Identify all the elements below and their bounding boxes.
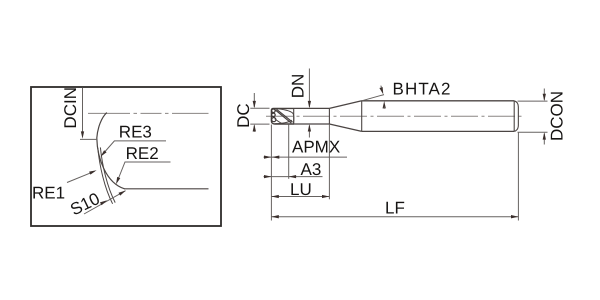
svg-text:RE2: RE2 xyxy=(126,144,159,163)
flute gash bump 2 xyxy=(272,113,276,117)
flute gash bump 1 xyxy=(272,109,276,113)
taper start vertical xyxy=(328,108,330,124)
flute gash bump 3 xyxy=(272,118,276,122)
BHTA2 taper extension line xyxy=(362,95,384,101)
shank bottom xyxy=(362,130,515,132)
shank end chamfer vertical xyxy=(513,101,515,132)
svg-text:DC: DC xyxy=(234,103,253,128)
DCIN extension tick xyxy=(80,138,97,140)
head end vertical xyxy=(293,108,295,124)
extension line shank end xyxy=(517,133,519,221)
extension line tool face xyxy=(270,125,272,221)
neck top line xyxy=(294,107,329,109)
svg-text:DCON: DCON xyxy=(548,91,567,141)
detail bottom profile line xyxy=(124,188,209,190)
LU arrow right xyxy=(322,195,329,198)
APMX dimension line xyxy=(264,156,348,158)
A3 arrow left xyxy=(264,175,271,178)
DCON arrow lower xyxy=(543,132,546,139)
RE2 leader xyxy=(117,162,171,182)
detail profile curve xyxy=(97,113,125,189)
S10 arrow a xyxy=(100,200,107,205)
detail tangent double line 1 xyxy=(98,148,113,204)
BHTA2 lower arrow xyxy=(383,101,386,108)
RE1 leader xyxy=(67,171,95,182)
RE3 leader xyxy=(102,141,166,155)
flute bottom arc xyxy=(275,120,292,123)
DCON extension top xyxy=(518,100,548,102)
A3 arrow right xyxy=(289,175,296,178)
APMX arrow left xyxy=(264,155,271,158)
flute lower short edge xyxy=(275,119,283,124)
LF arrow right xyxy=(511,215,518,218)
flute helix edge 1 xyxy=(275,110,292,124)
DCON dimension line lower xyxy=(543,134,545,145)
DC extension line bottom xyxy=(250,123,269,125)
BHTA2 upper arrow xyxy=(379,87,383,95)
svg-text:RE3: RE3 xyxy=(119,123,152,142)
S10 arrow b xyxy=(119,191,126,196)
A3 dimension line xyxy=(264,176,323,178)
DCON dimension line upper xyxy=(543,89,545,100)
DC arrow lower xyxy=(253,124,256,131)
svg-text:DN: DN xyxy=(289,74,308,99)
svg-text:APMX: APMX xyxy=(292,138,340,157)
svg-text:RE1: RE1 xyxy=(32,184,65,203)
neck bottom line xyxy=(294,123,329,125)
BHTA2 lower arrow tail xyxy=(383,107,385,109)
RE1 arrow xyxy=(89,170,97,174)
LU arrow left xyxy=(271,195,278,198)
DN arrow lower xyxy=(308,124,311,131)
S10 leader line xyxy=(84,191,126,214)
DCIN arrow xyxy=(81,131,84,138)
extension line flute end xyxy=(288,124,290,179)
DC dimension line upper xyxy=(253,93,255,107)
taper top xyxy=(329,101,361,109)
DCON extension bottom xyxy=(518,131,548,133)
detail centerline (dash-dot) xyxy=(88,112,209,114)
DCIN dimension line xyxy=(82,88,84,137)
shank end face curve xyxy=(514,101,518,132)
main centerline (dash-dot) xyxy=(266,115,524,117)
svg-text:LU: LU xyxy=(290,180,312,199)
APMX arrow right xyxy=(272,155,279,158)
svg-text:DCIN: DCIN xyxy=(61,87,80,129)
DN dimension line upper xyxy=(308,69,310,108)
LU dimension line xyxy=(271,196,329,198)
taper bottom xyxy=(329,124,361,131)
BHTA2 upper arrow tail xyxy=(381,86,382,88)
tool head+neck outline xyxy=(271,108,294,124)
LF dimension line xyxy=(271,216,518,218)
DN dimension line lower xyxy=(308,125,310,137)
flute helix edge 2 xyxy=(276,109,292,122)
DCON arrow upper xyxy=(543,94,546,101)
svg-text:A3: A3 xyxy=(301,160,322,179)
flute top-right arc xyxy=(278,109,294,123)
DC extension line top xyxy=(250,107,269,109)
DN arrow upper xyxy=(308,101,311,108)
svg-text:BHTA2: BHTA2 xyxy=(393,80,452,99)
DC arrow upper xyxy=(253,101,256,108)
detail tangent double line 2 xyxy=(100,147,115,202)
svg-text:LF: LF xyxy=(385,199,405,218)
RE2 arrow xyxy=(116,177,120,185)
shank top xyxy=(362,100,515,102)
DC dimension line lower xyxy=(253,125,255,131)
extension line neck end xyxy=(328,124,330,199)
LF arrow left xyxy=(271,215,278,218)
detail box frame xyxy=(31,87,221,226)
taper end vertical xyxy=(361,101,363,132)
RE3 arrow xyxy=(101,150,107,157)
